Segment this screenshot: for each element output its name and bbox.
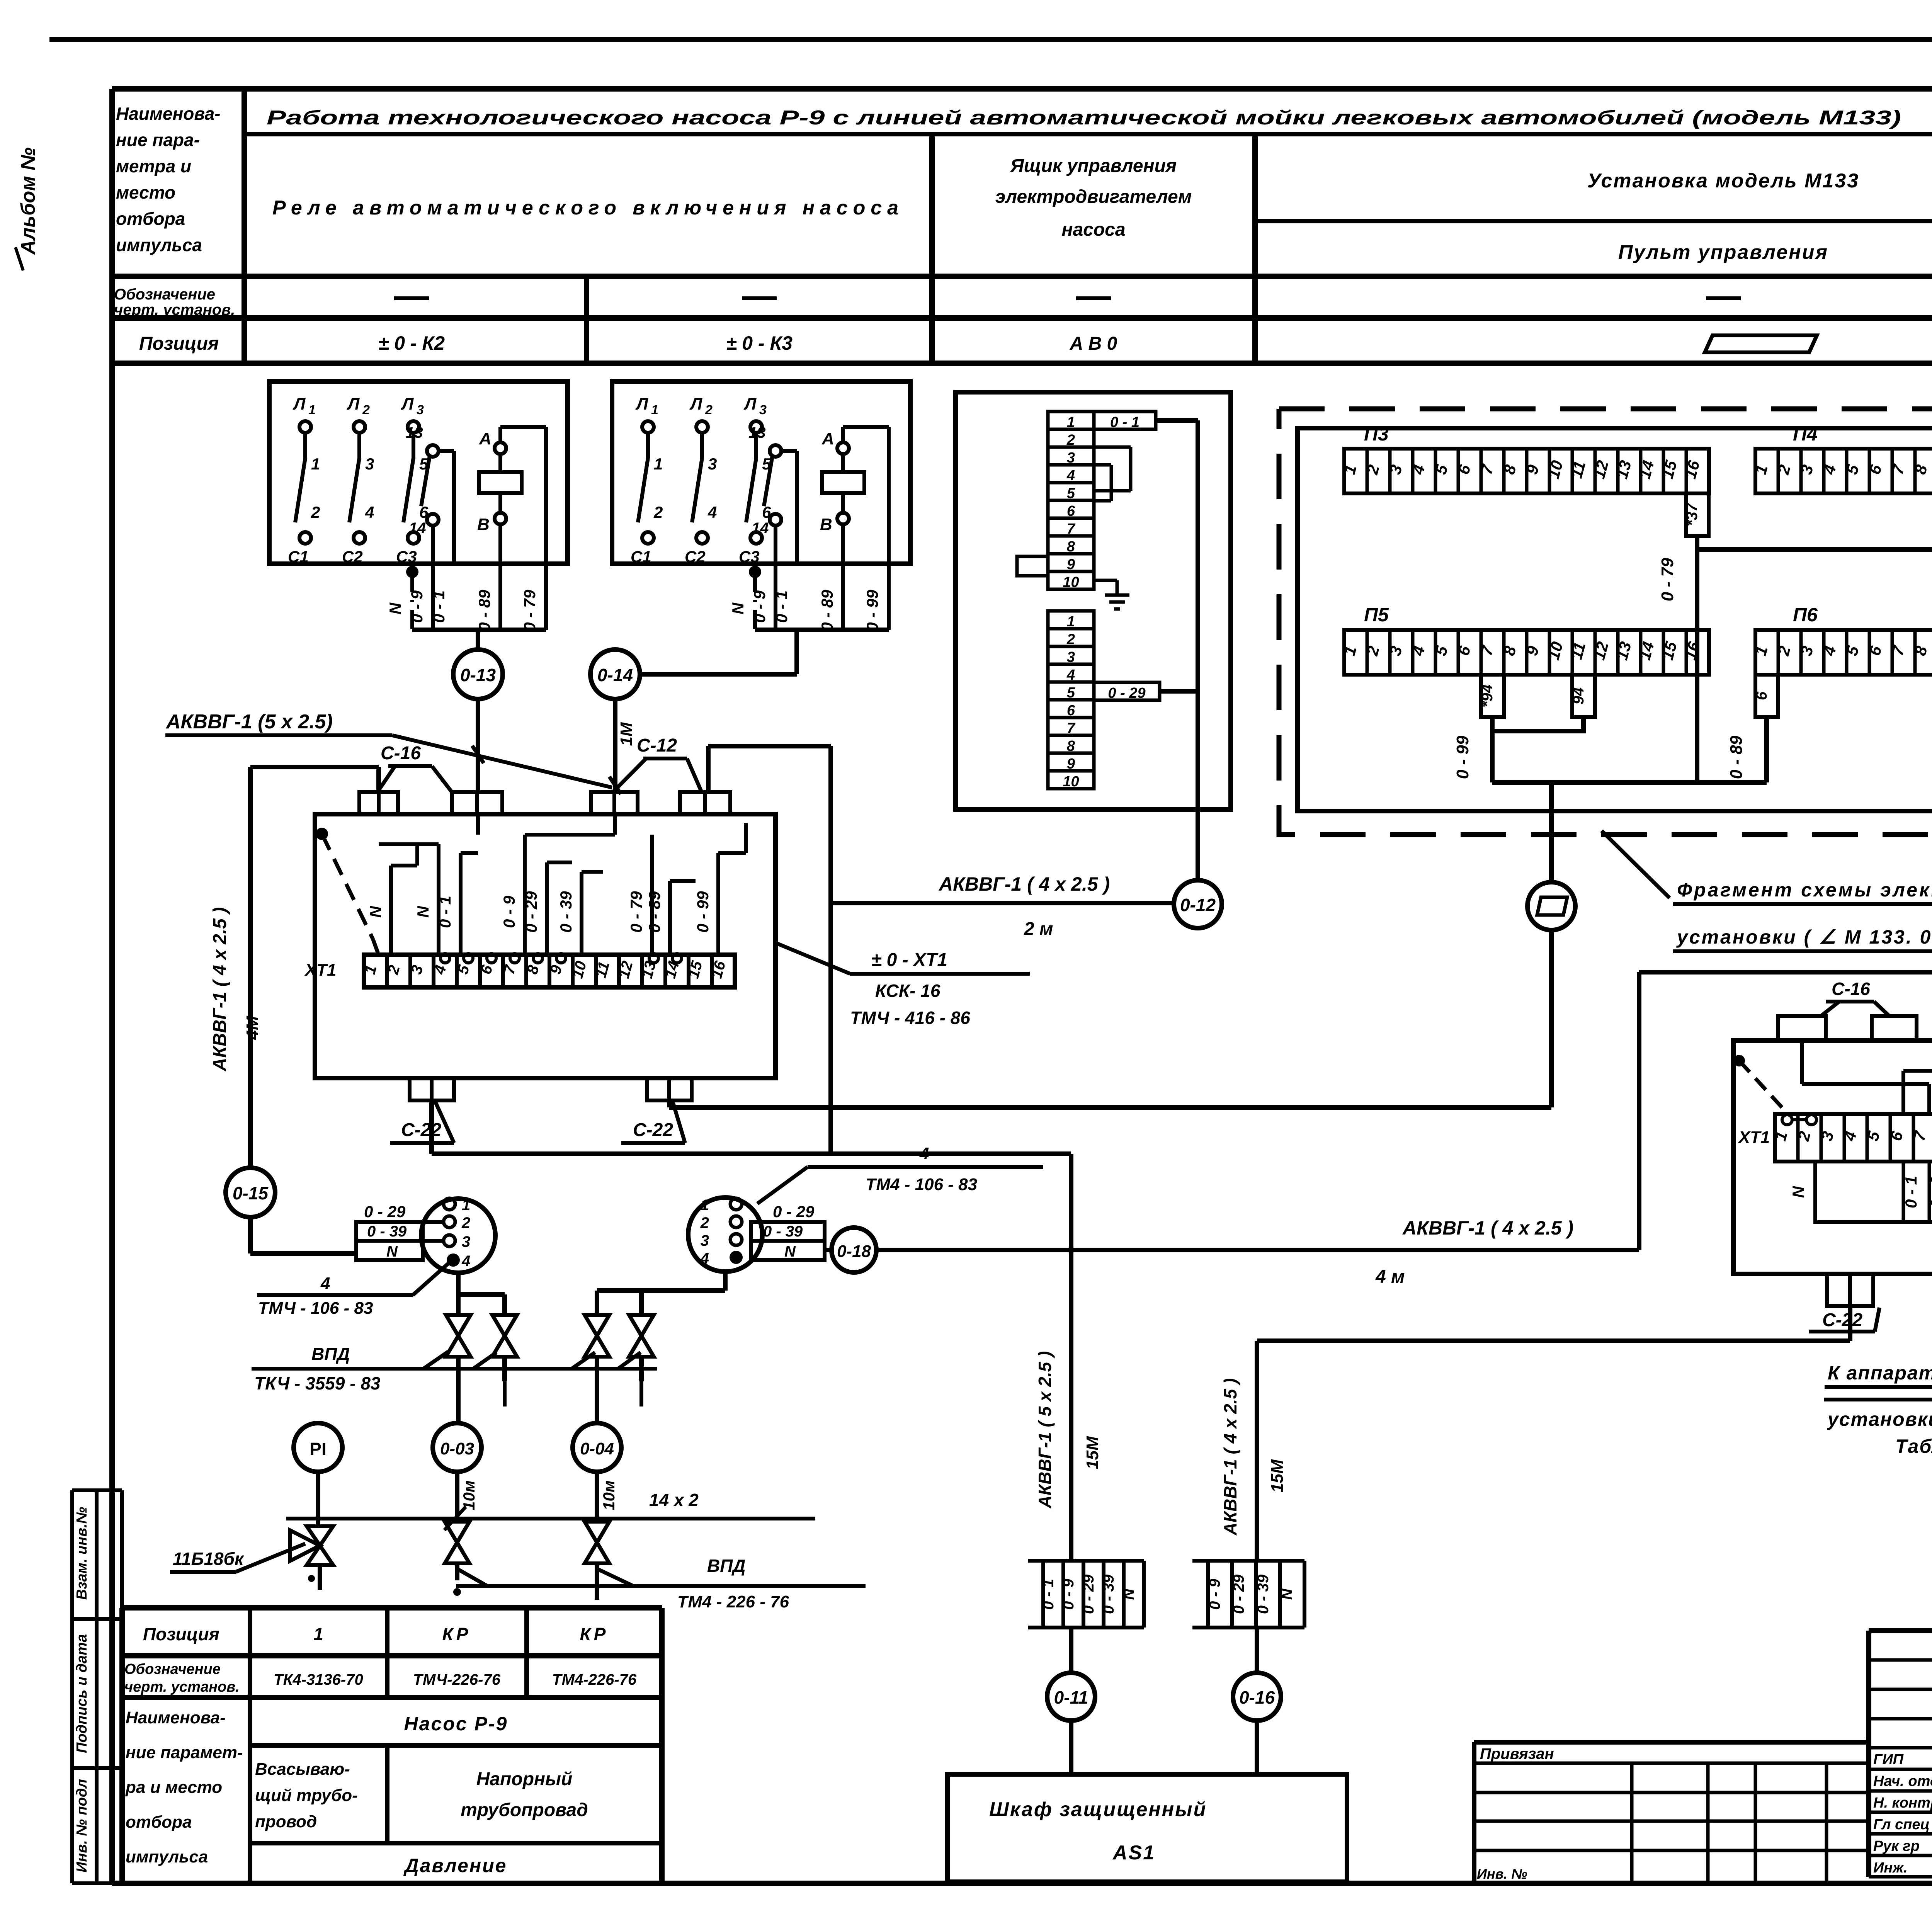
svg-text:Гл спец: Гл спец [1873, 1816, 1930, 1833]
title block outer [1869, 1628, 1932, 1633]
sensor circle 0-13 [476, 630, 480, 650]
svg-text:ХТ1: ХТ1 [304, 961, 337, 980]
svg-text:0 - 89: 0 - 89 [475, 590, 493, 631]
label block 0-XT1 KCK-16 TM4-416-86 [776, 943, 850, 974]
svg-text:С-22: С-22 [1822, 1310, 1862, 1330]
svg-text:установки ( ∠ М 133. 00. 00.: установки ( ∠ М 133. 00. 00. 000 ЭЧ ) [1676, 926, 1932, 948]
valve 2 [492, 1315, 517, 1336]
relay bottom bus [755, 628, 889, 632]
dash marks in Обозначение row [394, 296, 429, 300]
cable tag boxes above 0-16 [1192, 1559, 1304, 1563]
svg-text:13: 13 [748, 424, 766, 441]
valve pair under connector1 [456, 1272, 461, 1315]
svg-text:0 - 99: 0 - 99 [1453, 735, 1472, 779]
svg-text:0 - 39: 0 - 39 [1100, 1574, 1117, 1614]
wire 0-14 to relay K3 [640, 672, 797, 677]
drop wire to M133 symbol [1549, 782, 1554, 883]
wires from left control box labels to riser [1156, 418, 1198, 423]
svg-text:АКВВГ-1 ( 5 х 2.5 ): АКВВГ-1 ( 5 х 2.5 ) [1035, 1351, 1055, 1509]
svg-text:0-11: 0-11 [1054, 1687, 1088, 1708]
jumper hooks cells 3-6 [1094, 446, 1131, 449]
svg-text:С-16: С-16 [1832, 979, 1870, 999]
svg-text:Л: Л [293, 395, 306, 413]
svg-text:С-22: С-22 [401, 1120, 441, 1140]
right XT1 bottom bumps [1827, 1274, 1873, 1306]
fragment leader line [1602, 831, 1670, 898]
svg-text:0 - 39: 0 - 39 [1255, 1574, 1272, 1614]
XT1 internal staircase horizontals [391, 864, 417, 867]
svg-text:П3: П3 [1364, 423, 1389, 445]
svg-text:0 - 99: 0 - 99 [694, 891, 712, 933]
svg-text:ра и место: ра и место [125, 1778, 222, 1797]
round connector 2 with pins [688, 1197, 762, 1272]
svg-text:4М: 4М [243, 1015, 262, 1040]
svg-text:± 0 - К3: ± 0 - К3 [726, 332, 793, 354]
valve 3 [585, 1315, 609, 1336]
svg-text:ТКЧ - 3559 - 83: ТКЧ - 3559 - 83 [254, 1373, 381, 1393]
svg-text:К аппаратному шкафу ( пульт: К аппаратному шкафу ( пульту управления … [1828, 1362, 1932, 1384]
svg-text:14: 14 [752, 520, 769, 537]
svg-text:0-04: 0-04 [580, 1439, 614, 1458]
line 14x2 [286, 1517, 815, 1520]
svg-text:Наименова-: Наименова- [116, 104, 220, 124]
sensor circle 0-03 [433, 1423, 481, 1472]
svg-text:П6: П6 [1793, 604, 1818, 626]
dashed fragment enclosure [1279, 409, 1932, 835]
svg-text:0 - 29: 0 - 29 [773, 1202, 815, 1221]
terminal strip lower 1-10 [1048, 611, 1094, 629]
svg-text:Всасываю-: Всасываю- [255, 1760, 350, 1779]
leader 4 TM4-106-83 lower [413, 1264, 448, 1295]
valve 1 [446, 1315, 471, 1336]
svg-text:П5: П5 [1364, 604, 1389, 626]
wire 0-12 up to yashik 0-1 label [1196, 420, 1200, 880]
svg-text:Альбом №: Альбом № [17, 147, 39, 255]
svg-text:Наименова-: Наименова- [126, 1708, 226, 1727]
svg-text:отбора: отбора [116, 209, 185, 229]
svg-text:0 - 39: 0 - 39 [367, 1223, 407, 1240]
svg-text:0 - 89: 0 - 89 [818, 590, 836, 631]
svg-text:провод: провод [255, 1812, 317, 1831]
svg-text:Насос Р-9: Насос Р-9 [404, 1713, 508, 1735]
svg-text:С-22: С-22 [633, 1120, 673, 1140]
svg-text:Л: Л [689, 395, 702, 413]
svg-text:0 - 89: 0 - 89 [645, 891, 663, 933]
svg-text:94: 94 [1570, 687, 1587, 705]
svg-text:ние пара-: ние пара- [116, 130, 200, 150]
svg-text:4: 4 [320, 1274, 330, 1293]
marker dot and dash line [316, 828, 328, 840]
right XT1 pin circles [1782, 1115, 1792, 1125]
wire 0-89 down from P6 [1764, 717, 1769, 782]
svg-text:Привязан: Привязан [1480, 1745, 1554, 1762]
right XT1 enclosure [1733, 1041, 1932, 1274]
svg-text:импульса: импульса [126, 1847, 208, 1866]
svg-text:3: 3 [701, 1232, 709, 1249]
relay bottom bus [412, 628, 546, 632]
sensor circle 0-11 [1047, 1673, 1095, 1721]
svg-text:± 0 - ХТ1: ± 0 - ХТ1 [871, 950, 947, 970]
svg-text:0 - 1: 0 - 1 [772, 590, 791, 623]
svg-text:АКВВГ-1 ( 4 х 2.5 ): АКВВГ-1 ( 4 х 2.5 ) [1402, 1217, 1573, 1239]
svg-text:2 м: 2 м [1024, 919, 1053, 939]
svg-text:0-03: 0-03 [440, 1439, 474, 1458]
svg-text:0 - 29: 0 - 29 [522, 891, 540, 933]
svg-text:Н. контр: Н. контр [1873, 1795, 1932, 1811]
left bump cell9 [1017, 556, 1048, 576]
svg-text:2: 2 [705, 403, 713, 417]
svg-text:КСК- 16: КСК- 16 [875, 981, 940, 1001]
svg-text:Установка модель М133: Установка модель М133 [1587, 170, 1859, 192]
svg-text:С-16: С-16 [381, 743, 421, 764]
svg-text:1: 1 [651, 403, 658, 417]
svg-text:0-15: 0-15 [233, 1183, 269, 1203]
svg-text:Л: Л [347, 395, 360, 413]
link wire 37-37 [1697, 536, 1932, 549]
svg-text:0 - 1: 0 - 1 [1040, 1579, 1057, 1610]
svg-text:С3: С3 [396, 548, 417, 566]
svg-text:ТМ4 - 106 - 83: ТМ4 - 106 - 83 [866, 1175, 977, 1194]
title block signature grid [1869, 1658, 1932, 1662]
terminal strip П5 [1344, 630, 1709, 675]
svg-text:0 - 79: 0 - 79 [1658, 558, 1677, 601]
svg-text:импульса: импульса [116, 235, 202, 255]
svg-text:3: 3 [462, 1233, 470, 1250]
svg-text:2: 2 [700, 1214, 709, 1231]
svg-text:1: 1 [308, 403, 316, 417]
svg-text:Инж.: Инж. [1873, 1860, 1908, 1876]
svg-text:11Б18бк: 11Б18бк [173, 1549, 245, 1569]
svg-text:15М: 15М [1083, 1436, 1102, 1469]
terminal strip П6 [1755, 630, 1932, 675]
wire 0-79 down from 37 link [1695, 549, 1699, 782]
svg-text:14: 14 [409, 520, 426, 537]
svg-text:0-14: 0-14 [597, 665, 633, 685]
svg-text:0 - 1: 0 - 1 [1902, 1176, 1920, 1208]
valve under 0-04 [585, 1522, 609, 1543]
tag box *94 under P5-7 [1481, 675, 1504, 717]
riser x2150 from 0-12 line to 5x2.5 bus [828, 903, 833, 1154]
svg-text:Взам. инв.№: Взам. инв.№ [74, 1507, 90, 1600]
wire from C-22 bump1 down and across 5x2.5 bus [429, 1100, 434, 1154]
svg-text:Ящик управления: Ящик управления [1010, 156, 1177, 176]
label box 0-29 [1094, 682, 1160, 700]
svg-text:1: 1 [654, 455, 663, 473]
XT1 bottom bumps [410, 1078, 454, 1100]
sensor circle 0-18 [832, 1228, 876, 1272]
wire connector2 to 0-18 [825, 1248, 832, 1252]
svg-text:Л: Л [401, 395, 414, 413]
svg-text:А В 0: А В 0 [1070, 333, 1117, 354]
tag box 6 under P6-1 [1755, 675, 1778, 717]
bottom left table frame [122, 1605, 662, 1611]
svg-text:N: N [1279, 1588, 1296, 1600]
svg-text:4: 4 [461, 1253, 470, 1270]
svg-text:0 - 29: 0 - 29 [1230, 1574, 1247, 1614]
XT1 internal wire risers and labels [389, 866, 393, 955]
svg-text:ТМЧ - 416 - 86: ТМЧ - 416 - 86 [850, 1008, 970, 1028]
svg-text:0 - 9: 0 - 9 [500, 895, 518, 928]
svg-text:КР: КР [580, 1624, 609, 1644]
solid inner enclosure [1298, 428, 1932, 811]
riser from 0-18 line up to 2516 wire [1637, 972, 1641, 1250]
connector1 label boxes [356, 1222, 423, 1260]
svg-text:*94: *94 [1479, 684, 1496, 707]
connector2 label boxes [751, 1222, 825, 1260]
cable tag boxes above 0-11 [1028, 1559, 1144, 1563]
svg-text:электродвигателем: электродвигателем [995, 187, 1192, 207]
svg-text:3: 3 [708, 455, 717, 473]
position parallelogram mark [1705, 335, 1817, 352]
wire C-12 to 0-12 upper route [706, 746, 711, 791]
svg-text:0 - 89: 0 - 89 [1727, 735, 1746, 779]
svg-text:4: 4 [365, 503, 374, 521]
svg-text:ВПД: ВПД [311, 1344, 350, 1364]
svg-text:0 - 1: 0 - 1 [1110, 414, 1139, 430]
wire right XT1 bump1 to shkaf cable [1848, 1306, 1852, 1341]
svg-text:отбора: отбора [126, 1813, 192, 1832]
svg-text:АКВВГ-1 ( 4 х 2.5 ): АКВВГ-1 ( 4 х 2.5 ) [1220, 1378, 1240, 1536]
XT1 terminal strip left [364, 955, 735, 987]
svg-text:0-18: 0-18 [837, 1242, 871, 1261]
svg-text:0 - 39: 0 - 39 [763, 1223, 803, 1240]
svg-text:Подпись и дата: Подпись и дата [74, 1634, 90, 1753]
svg-text:Инв. № подл: Инв. № подл [74, 1779, 90, 1872]
valve 4 [629, 1315, 654, 1336]
svg-text:Обозначение: Обозначение [124, 1661, 221, 1677]
svg-text:0-16: 0-16 [1239, 1687, 1275, 1708]
valve under 0-03 [445, 1522, 469, 1543]
svg-text:метра и: метра и [116, 156, 191, 176]
svg-text:± 0 - К2: ± 0 - К2 [378, 332, 445, 354]
XT1 enclosure box left [315, 814, 776, 1078]
relay output wires 0-9 0-1 and labels [431, 564, 435, 630]
svg-text:N: N [386, 602, 404, 614]
svg-text:АКВВГ-1 ( 4 х 2.5 ): АКВВГ-1 ( 4 х 2.5 ) [210, 907, 230, 1071]
label box 0-1 [1094, 412, 1156, 429]
svg-text:черт. установ.: черт. установ. [124, 1679, 240, 1695]
right XT1 top bumps [1778, 1016, 1826, 1041]
svg-text:АКВВГ-1 (5 х 2.5): АКВВГ-1 (5 х 2.5) [165, 711, 333, 733]
svg-text:черт. установ.: черт. установ. [114, 301, 235, 318]
svg-text:0 - 39: 0 - 39 [557, 891, 575, 933]
svg-text:Таблица применяемости: Таблица применяемости лист 25 [1895, 1435, 1932, 1457]
svg-text:ТМЧ-226-76: ТМЧ-226-76 [413, 1671, 501, 1688]
svg-text:ТМЧ - 106 - 83: ТМЧ - 106 - 83 [258, 1299, 373, 1318]
svg-text:2: 2 [311, 503, 320, 521]
leader 4 TM4-106-83 upper [757, 1167, 808, 1204]
svg-text:0 - 79: 0 - 79 [520, 590, 539, 631]
svg-text:10: 10 [1063, 574, 1079, 590]
svg-text:Нач. отд: Нач. отд [1873, 1773, 1932, 1789]
svg-text:щий трубо-: щий трубо- [255, 1786, 358, 1805]
sensor circle 0-16 [1233, 1673, 1281, 1721]
svg-text:3: 3 [417, 403, 424, 417]
fragment bottom bus [1492, 780, 1767, 785]
sheet outer frame top edge [49, 37, 1932, 42]
svg-text:Обозначение: Обозначение [114, 286, 215, 303]
svg-text:0-12: 0-12 [1180, 895, 1216, 915]
svg-text:место: место [116, 182, 175, 202]
wire 0-18 line to right XT1 riser [876, 1248, 1639, 1252]
svg-text:13: 13 [406, 424, 423, 441]
svg-text:Пульт управления: Пульт управления [1618, 241, 1828, 264]
svg-text:1: 1 [701, 1197, 709, 1214]
svg-text:ГИП: ГИП [1873, 1752, 1904, 1768]
svg-text:Л: Л [635, 395, 648, 413]
protected cabinet AS1 box [947, 1774, 1347, 1882]
svg-text:10: 10 [1063, 774, 1079, 790]
4x2.5 riser to cabinet [1255, 1341, 1259, 1561]
privyazan sub table [1474, 1740, 1869, 1745]
svg-text:ТМ4-226-76: ТМ4-226-76 [552, 1671, 637, 1688]
svg-text:Инв. №: Инв. № [1477, 1866, 1527, 1882]
wires to 0-11 0-16 [1069, 1628, 1073, 1673]
0-12 feed line with label AKVVG-1 4x2.5 2m [831, 901, 1174, 905]
svg-text:10м: 10м [460, 1480, 478, 1510]
round connector 1 with pins [421, 1199, 495, 1273]
svg-text:Рук гр: Рук гр [1873, 1838, 1920, 1854]
svg-text:N: N [386, 1243, 398, 1260]
svg-text:N: N [1789, 1185, 1807, 1198]
svg-text:Шкаф защищенный: Шкаф защищенный [989, 1798, 1207, 1821]
sensor circle 0-14 [590, 650, 640, 699]
tag box 94 under P5-11 [1572, 675, 1595, 717]
svg-text:насоса: насоса [1061, 219, 1125, 240]
svg-text:4: 4 [707, 503, 717, 521]
svg-text:N: N [366, 905, 384, 918]
tag box *37 under P3-16 [1686, 493, 1709, 536]
svg-text:1: 1 [462, 1197, 470, 1214]
right XT1 marker dot with dashes [1733, 1055, 1745, 1066]
svg-text:В: В [820, 515, 832, 534]
VPD TM4-226-76 collector [456, 1584, 866, 1588]
relay output wires 0-9 0-1 and labels [774, 564, 777, 630]
valve pair under connector2 [723, 1272, 728, 1291]
svg-text:1: 1 [313, 1624, 323, 1644]
svg-text:2: 2 [653, 503, 663, 521]
svg-text:0 - 29: 0 - 29 [364, 1202, 406, 1221]
svg-text:ВПД: ВПД [707, 1556, 746, 1576]
svg-text:С2: С2 [342, 548, 363, 566]
svg-text:С3: С3 [739, 548, 760, 566]
svg-text:2: 2 [362, 403, 370, 417]
margin stamp boxes [72, 1488, 122, 1492]
svg-text:3: 3 [759, 403, 767, 417]
svg-text:1М: 1М [617, 722, 636, 746]
svg-text:А: А [821, 429, 834, 448]
svg-text:В: В [477, 515, 490, 534]
svg-text:П4: П4 [1793, 423, 1818, 445]
svg-text:трубопровад: трубопровад [461, 1800, 588, 1820]
svg-text:4 м: 4 м [1375, 1267, 1405, 1287]
bottom table column lines [248, 1608, 252, 1883]
svg-text:0 - 9: 0 - 9 [1206, 1578, 1223, 1610]
right XT1 below-strip label box [1815, 1162, 1932, 1222]
svg-text:Позиция: Позиция [139, 333, 219, 354]
svg-text:1: 1 [311, 455, 320, 473]
PI stem and 3way valve [316, 1472, 320, 1527]
M133 circle symbol with parallelogram [1527, 882, 1575, 930]
upper 2516 wire into C-12 left bump [1639, 970, 1932, 975]
5x2.5 riser to cabinet [1069, 1154, 1073, 1561]
XT1 strip terminal pins [440, 954, 450, 963]
sheet inner frame left edge [109, 89, 115, 1884]
right XT1 inner wiring [1800, 1041, 1804, 1084]
svg-text:КР: КР [442, 1624, 471, 1644]
svg-text:установки ( ∠: установки ( ∠ [1827, 1408, 1932, 1430]
svg-text:Напорный: Напорный [476, 1769, 573, 1789]
wire 0-14 down to C-12 with 1M label [613, 699, 617, 792]
header table outer and row lines [112, 86, 1932, 92]
svg-text:10м: 10м [600, 1480, 618, 1510]
relay box outline [612, 381, 910, 564]
svg-text:0 - 1: 0 - 1 [436, 896, 454, 928]
svg-text:*37: *37 [1684, 502, 1701, 526]
svg-text:2: 2 [461, 1214, 470, 1231]
svg-text:N: N [784, 1243, 796, 1260]
svg-text:0 - 9: 0 - 9 [1060, 1578, 1077, 1610]
header table column lines [241, 89, 247, 363]
svg-text:Давление: Давление [403, 1855, 507, 1876]
relay box outline [269, 381, 568, 564]
svg-text:0 - 79: 0 - 79 [627, 891, 645, 933]
svg-text:0 - 1: 0 - 1 [430, 590, 448, 623]
svg-text:С-12: С-12 [637, 735, 677, 756]
wire from C-22 bump2 across to fragment drop [667, 1100, 672, 1107]
svg-text:15М: 15М [1268, 1459, 1287, 1493]
svg-text:0 - 9: 0 - 9 [750, 590, 769, 623]
right XT1 terminal strip [1775, 1114, 1932, 1162]
svg-text:AS1: AS1 [1112, 1842, 1155, 1864]
svg-text:0 - 29: 0 - 29 [1080, 1574, 1097, 1614]
svg-text:0 - 29: 0 - 29 [1108, 685, 1145, 701]
svg-text:А: А [479, 429, 492, 448]
svg-text:0 - 9: 0 - 9 [1927, 1175, 1932, 1208]
svg-text:N: N [1120, 1588, 1137, 1600]
svg-text:3: 3 [365, 455, 374, 473]
svg-text:0-13: 0-13 [460, 665, 496, 685]
control box outline [956, 392, 1231, 810]
cable from 0-15 riser [248, 767, 253, 1168]
svg-text:N: N [414, 905, 432, 918]
wire 0-99 down [1490, 731, 1495, 782]
svg-text:Позиция: Позиция [143, 1624, 219, 1644]
wire 0-13 down to C-16 [476, 699, 480, 792]
terminal strip upper 1-10 [1048, 412, 1094, 429]
svg-text:Фрагмент схемы электрической: Фрагмент схемы электрической соединений [1677, 879, 1932, 901]
relay N wire with junction dot [749, 566, 761, 578]
sensor circle 0-15 [226, 1168, 275, 1217]
sensor circle PI [294, 1423, 342, 1472]
svg-text:ние парамет-: ние парамет- [126, 1743, 243, 1762]
svg-text:Л: Л [743, 395, 757, 413]
svg-text:PI: PI [310, 1439, 326, 1459]
XT1 top connector bumps [359, 792, 398, 814]
ground symbol [1094, 579, 1117, 582]
svg-text:4: 4 [700, 1250, 709, 1267]
svg-text:0 - 9: 0 - 9 [408, 590, 426, 623]
svg-text:С1: С1 [288, 548, 309, 566]
svg-text:С1: С1 [631, 548, 651, 566]
svg-text:ТМ4 - 226 - 76: ТМ4 - 226 - 76 [677, 1592, 789, 1611]
svg-text:АКВВГ-1 ( 4 х 2.5 ): АКВВГ-1 ( 4 х 2.5 ) [938, 873, 1110, 895]
link wire 94-94 [1492, 717, 1583, 731]
svg-text:N: N [729, 602, 747, 614]
svg-text:С2: С2 [685, 548, 706, 566]
terminal strip П4 [1755, 449, 1932, 493]
sensor circle 0-04 [573, 1423, 621, 1472]
